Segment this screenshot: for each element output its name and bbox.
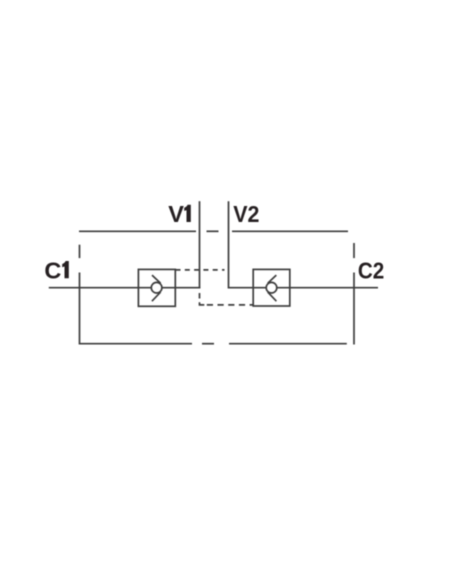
enclosure top dashed boundary [79,230,348,232]
pilot line from CV1 to V2 (dashed) [176,269,225,271]
svg-text:C: C [44,257,61,283]
check valve CV1 seat [152,275,161,301]
check valve CV2 seat [268,275,277,301]
enclosure right dashed boundary [353,243,355,345]
label C1 [44,257,68,283]
check valve CV2 box [253,269,290,306]
wire port V2 vertical with bend to right flow line [229,201,379,288]
wire port V1 vertical [199,201,201,288]
svg-text:C2: C2 [358,257,384,283]
wire port C1 flow line [49,287,201,289]
check valve CV1 ball [151,282,162,293]
svg-text:V2: V2 [233,201,259,227]
pilot line from V1 junction to CV2 (dashed) [200,293,254,305]
enclosure left dashed boundary [79,245,81,345]
check valve CV1 box [138,269,175,306]
label V1 [168,201,191,227]
svg-text:V: V [168,201,184,227]
enclosure bottom dashed boundary [80,343,347,345]
check valve CV2 ball [266,282,277,293]
